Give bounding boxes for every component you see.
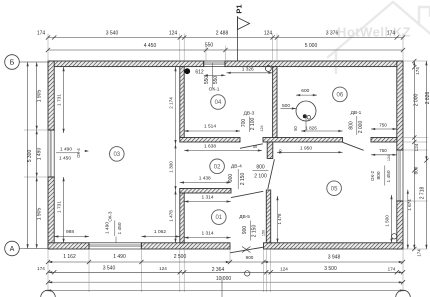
svg-text:ДВ-4: ДВ-4 <box>231 164 242 170</box>
svg-text:1 490: 1 490 <box>104 222 110 234</box>
svg-text:1 062: 1 062 <box>154 229 166 235</box>
svg-text:174: 174 <box>37 31 46 37</box>
svg-text:500: 500 <box>282 103 290 109</box>
right dim column outer <box>425 61 427 161</box>
svg-text:1 490: 1 490 <box>60 147 72 153</box>
window OK-1 in top wall <box>204 61 225 67</box>
wall stub below C at door DV-4 <box>267 142 273 159</box>
wall C: right of door DV-1 to right wall <box>371 138 397 143</box>
svg-text:1 674: 1 674 <box>407 199 412 211</box>
svg-text:1 450: 1 450 <box>59 156 71 162</box>
svg-text:988: 988 <box>66 229 74 235</box>
svg-text:174: 174 <box>387 31 396 37</box>
svg-text:900: 900 <box>246 255 254 260</box>
svg-text:550: 550 <box>213 76 219 85</box>
north flag P1 <box>237 16 239 61</box>
svg-text:124: 124 <box>414 143 419 151</box>
svg-text:1 950: 1 950 <box>300 146 312 152</box>
wall: right exterior above window OK-2 <box>397 61 403 150</box>
svg-text:04: 04 <box>215 100 222 106</box>
svg-text:150: 150 <box>262 230 266 236</box>
boiler circle in room 06 <box>296 101 316 121</box>
svg-text:3 500: 3 500 <box>324 266 337 272</box>
svg-text:1 478: 1 478 <box>169 210 174 222</box>
svg-text:800: 800 <box>256 164 265 170</box>
svg-text:А: А <box>10 246 15 253</box>
svg-text:800: 800 <box>376 171 382 179</box>
axis line A <box>19 248 48 250</box>
dim 750 room 06 <box>371 128 397 130</box>
room bubble 05 <box>327 181 342 196</box>
left dim column inner <box>36 62 38 249</box>
axis bubble A (left bottom) <box>5 241 20 256</box>
svg-text:02: 02 <box>214 164 221 170</box>
dim 1326 room 06 top <box>227 72 273 74</box>
dim 1438 <box>180 182 231 184</box>
window OK-4 in left wall <box>48 130 54 177</box>
dim 1314 lower room 01 <box>184 237 231 239</box>
wall between room 01 and room 05 <box>266 190 270 243</box>
svg-text:3 540: 3 540 <box>103 265 116 271</box>
svg-text:3 540: 3 540 <box>106 31 119 37</box>
svg-text:Б: Б <box>10 60 15 67</box>
svg-text:05: 05 <box>331 186 338 192</box>
svg-text:3 376: 3 376 <box>326 31 339 37</box>
svg-text:700: 700 <box>241 119 247 128</box>
window OK-3 in bottom wall <box>89 243 141 249</box>
svg-text:2 100: 2 100 <box>250 118 256 131</box>
svg-text:1 326: 1 326 <box>242 67 254 73</box>
svg-text:900: 900 <box>242 226 248 235</box>
svg-text:1 490: 1 490 <box>113 254 126 260</box>
svg-text:03: 03 <box>113 152 120 158</box>
small circle at bottom of right wall window <box>392 234 397 239</box>
extension lines bottom <box>47 249 49 292</box>
svg-text:1 162: 1 162 <box>63 254 76 260</box>
svg-text:50: 50 <box>253 144 258 149</box>
svg-text:124: 124 <box>159 266 167 271</box>
entry door threshold marks <box>242 247 251 253</box>
svg-text:2 718: 2 718 <box>420 187 426 200</box>
svg-text:1 638: 1 638 <box>204 144 216 150</box>
svg-text:50: 50 <box>293 126 298 131</box>
axis line B <box>19 61 48 63</box>
dim 1731 upper room 03 <box>63 67 65 133</box>
extension lines top <box>47 34 49 62</box>
boiler drain dot <box>303 114 307 118</box>
svg-text:06: 06 <box>337 93 344 99</box>
svg-text:1 314: 1 314 <box>201 230 213 236</box>
dim 1638 <box>184 150 262 152</box>
svg-text:2 150: 2 150 <box>240 173 246 186</box>
wall: left exterior below window <box>48 177 54 249</box>
dim 1826 room 06 <box>301 130 343 132</box>
dim 1514 room 04 <box>184 130 240 132</box>
axis bubble 2 (bottom right, cut) <box>396 290 411 297</box>
wall: bottom exterior, between window OK-3 and entry door <box>141 243 230 249</box>
svg-text:174: 174 <box>416 249 421 257</box>
vent circle room 06 top-left <box>266 66 272 72</box>
watermark house logo HotWell.KZ <box>327 2 430 74</box>
svg-text:1 500: 1 500 <box>385 215 390 227</box>
svg-text:750: 750 <box>379 123 387 128</box>
svg-text:2 174: 2 174 <box>169 97 174 109</box>
svg-text:ДВ-3: ДВ-3 <box>244 111 255 117</box>
svg-text:1 905: 1 905 <box>36 208 42 221</box>
wall C: under room 04 left of door DV-3 <box>180 138 240 143</box>
top dimension row 2 <box>48 49 403 51</box>
dim 500 room 06 <box>281 108 297 110</box>
right dim column inner <box>413 61 415 249</box>
svg-text:124: 124 <box>260 125 264 131</box>
svg-text:174: 174 <box>37 266 45 271</box>
svg-text:1 905: 1 905 <box>36 90 42 103</box>
svg-text:174: 174 <box>415 67 420 75</box>
window OK-2 in right wall <box>397 150 403 201</box>
svg-text:124: 124 <box>387 155 391 161</box>
svg-text:ОК-3: ОК-3 <box>107 211 112 222</box>
svg-text:10 000: 10 000 <box>216 276 232 282</box>
svg-text:124: 124 <box>264 31 273 37</box>
dim 1731 lower room 03 <box>63 177 65 243</box>
svg-text:P1: P1 <box>235 4 244 13</box>
top dimension row 1 <box>48 37 403 39</box>
svg-text:2 364: 2 364 <box>212 267 225 273</box>
dim 750 room 05 <box>371 154 397 156</box>
small axis circle on bottom dim row <box>245 271 250 276</box>
svg-text:1 731: 1 731 <box>57 94 63 106</box>
dim 1950 room 05 <box>277 151 343 153</box>
svg-text:550: 550 <box>205 43 214 49</box>
flue dot near wall A top <box>184 68 190 74</box>
left dim column outer (5300) <box>27 62 29 249</box>
svg-text:5 300: 5 300 <box>27 150 33 163</box>
svg-text:600: 600 <box>301 88 309 94</box>
wall A upper: between room 03 and room 04 <box>180 67 184 138</box>
right dim 1674 <box>407 190 409 249</box>
svg-text:2 150: 2 150 <box>252 225 258 238</box>
svg-text:2 488: 2 488 <box>216 31 229 37</box>
room bubble 01 <box>212 210 227 225</box>
extension lines right <box>403 60 428 62</box>
svg-text:1 514: 1 514 <box>204 124 216 130</box>
svg-text:1 314: 1 314 <box>201 195 213 201</box>
wall C: between door DV-3 and door DV-1 <box>263 138 343 143</box>
bottom axis line with arrows <box>45 290 406 292</box>
wall: bottom exterior, left of window OK-3 <box>48 243 89 249</box>
svg-text:ДВ-5: ДВ-5 <box>239 214 250 220</box>
svg-text:1 450: 1 450 <box>117 222 123 234</box>
wall A lower: left wall of room 01 <box>180 189 184 243</box>
dim 988 room 03 <box>54 236 89 238</box>
svg-text:2 000: 2 000 <box>358 121 364 134</box>
svg-text:ДВ-1: ДВ-1 <box>351 110 362 116</box>
dim 600 room 06 <box>296 94 317 96</box>
svg-text:01: 01 <box>215 215 222 221</box>
svg-text:1 300: 1 300 <box>169 161 174 173</box>
wall B: between room 04 and room 06 <box>273 67 277 138</box>
svg-text:ОК-4: ОК-4 <box>76 148 81 158</box>
svg-text:2 000: 2 000 <box>414 94 420 107</box>
svg-text:1 478: 1 478 <box>277 213 282 225</box>
room bubble 03 <box>110 147 125 162</box>
left-of-wall-A dim column <box>175 67 177 243</box>
svg-text:550: 550 <box>204 76 210 85</box>
axis bubble B (left top) <box>5 55 20 70</box>
room bubble 04 <box>211 95 226 110</box>
bottom dim row C (10 000) <box>48 281 403 283</box>
wall: bottom exterior, right of entry door <box>264 243 404 249</box>
svg-text:1 438: 1 438 <box>199 176 211 182</box>
door DV-1 leaf (room06 to room05) <box>343 142 364 150</box>
wall: right exterior below window OK-2 <box>397 201 403 249</box>
dim 1500 room 05 <box>391 195 393 243</box>
svg-text:5 000: 5 000 <box>305 43 318 49</box>
door DV-5 leaf (room02 to room01) <box>231 191 263 197</box>
wall: top exterior, right of window OK-1 <box>225 61 403 67</box>
door DV-3 leaf (room04 to room02) <box>240 144 263 149</box>
bottom dim row B <box>48 271 403 273</box>
svg-text:1 490: 1 490 <box>36 148 42 161</box>
svg-text:2 826: 2 826 <box>425 92 430 105</box>
svg-text:800: 800 <box>414 166 419 174</box>
svg-text:900: 900 <box>228 174 234 183</box>
dim 1478 right of room 01 <box>277 196 279 243</box>
room bubble 02 <box>210 159 225 174</box>
svg-text:1 450: 1 450 <box>386 170 392 182</box>
svg-text:2 500: 2 500 <box>174 254 187 260</box>
wall: left exterior above window <box>48 61 54 130</box>
svg-text:3 948: 3 948 <box>328 254 341 260</box>
svg-text:612: 612 <box>195 70 204 76</box>
room bubble 06 <box>333 87 348 102</box>
svg-text:2 100: 2 100 <box>254 173 267 179</box>
svg-text:4 450: 4 450 <box>144 43 157 49</box>
svg-text:800: 800 <box>348 121 354 130</box>
wall: top exterior, left of window OK-1 <box>48 61 204 67</box>
door DV-4 leaf (room02 to room05) <box>268 159 275 189</box>
svg-text:124: 124 <box>169 31 178 37</box>
wall D: between room 02 and room 01 <box>180 189 231 194</box>
dim 550 550 at window OK-1 <box>212 63 214 88</box>
bottom dim row A (first under wall) <box>48 261 403 263</box>
svg-text:174: 174 <box>388 267 396 272</box>
extension lines left <box>24 61 48 63</box>
dim 1062 room 03 <box>141 236 179 238</box>
svg-text:750: 750 <box>379 148 387 153</box>
dim 1314 upper room 01 <box>184 201 231 203</box>
svg-text:ОК-2: ОК-2 <box>370 170 375 181</box>
entry door leaf in bottom wall <box>230 247 263 253</box>
svg-text:1 731: 1 731 <box>57 201 63 213</box>
svg-text:ОК-1: ОК-1 <box>209 87 220 93</box>
svg-text:1 826: 1 826 <box>305 126 317 131</box>
axis bubble 1 (bottom left, cut) <box>41 290 56 297</box>
svg-text:124: 124 <box>280 266 288 271</box>
